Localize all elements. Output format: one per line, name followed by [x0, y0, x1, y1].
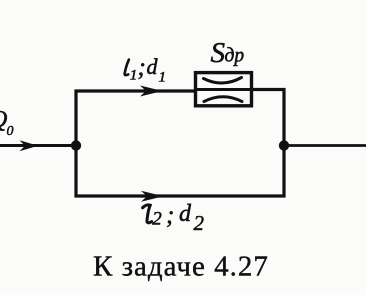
node A left junction — [71, 140, 81, 150]
svg-text:2: 2 — [194, 211, 205, 235]
label Q0 — [0, 107, 14, 139]
svg-text:1: 1 — [159, 70, 167, 86]
svg-text:;: ; — [166, 202, 174, 229]
throttle centerline wire through box — [194, 88, 253, 91]
svg-text:d: d — [147, 54, 159, 79]
wire left vertical — [74, 90, 77, 198]
arrow bottom branch flow — [141, 191, 164, 202]
svg-text:d: d — [179, 201, 192, 227]
svg-text:S: S — [211, 37, 226, 69]
svg-text:0: 0 — [7, 124, 14, 139]
throttle valve S_dr box — [196, 73, 252, 106]
label l1;d1 — [125, 54, 166, 86]
wire right vertical — [282, 88, 285, 198]
arrow input flow — [20, 140, 39, 151]
throttle upper arc — [204, 78, 242, 84]
arrow top branch flow — [140, 86, 163, 97]
svg-text:1: 1 — [130, 68, 138, 84]
svg-text:др: др — [225, 46, 245, 67]
wire top branch left — [75, 89, 197, 92]
wire top branch right — [251, 88, 286, 91]
wire bottom branch — [75, 194, 286, 197]
label l2;d2 — [143, 201, 205, 235]
svg-text:;: ; — [138, 54, 146, 81]
wire output — [284, 144, 366, 147]
node B right junction — [279, 140, 289, 150]
label S_dr — [211, 37, 245, 69]
svg-text:2: 2 — [152, 209, 162, 230]
wire input (Q0 inlet) — [0, 144, 78, 147]
throttle lower arc — [204, 97, 242, 102]
svg-text:К задаче 4.27: К задаче 4.27 — [93, 251, 269, 283]
